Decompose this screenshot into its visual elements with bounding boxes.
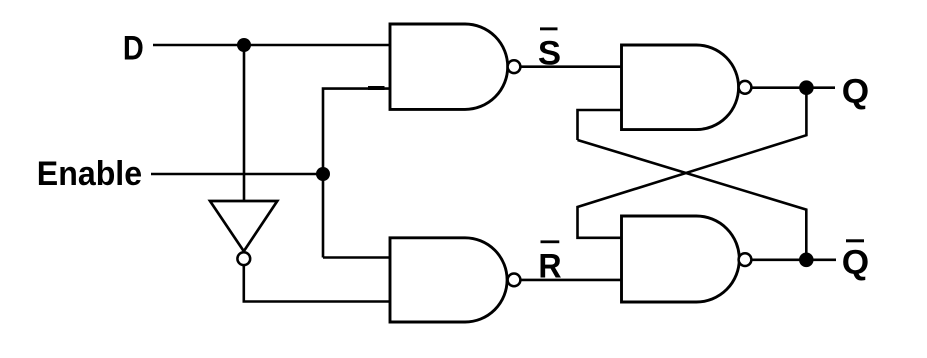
- NAND gate U1 output bubble: [508, 60, 521, 73]
- svg-text:S: S: [538, 34, 561, 72]
- inverter U5 triangle: [210, 201, 277, 251]
- wire D input: [153, 44, 390, 47]
- junction dot on D line: [237, 38, 251, 52]
- svg-text:R: R: [538, 248, 561, 286]
- NAND gate U4 output bubble: [739, 253, 752, 266]
- wire D branch down to inverter: [243, 45, 246, 201]
- NAND gate U3 output bubble: [739, 81, 752, 94]
- junction dot Q-bar: [799, 252, 814, 267]
- junction dot on Enable line: [316, 167, 330, 181]
- wire S-bar from U1 to U3: [520, 65, 621, 68]
- svg-text:D: D: [123, 29, 144, 67]
- svg-text:Enable: Enable: [37, 155, 142, 193]
- NAND gate U1 body: [390, 24, 508, 109]
- NAND gate U2 body: [390, 238, 507, 322]
- junction dot Q: [799, 80, 814, 95]
- wire R-bar from U2 to U4: [520, 279, 621, 282]
- wire Enable branch to gate U2 input: [323, 256, 390, 259]
- wire cross-coupling from U3 input to Q-bar node: [578, 140, 807, 260]
- inverter U5 output bubble: [237, 252, 250, 265]
- wire U3 output to Q: [751, 86, 835, 89]
- wire U4 output to Q-bar: [751, 258, 836, 261]
- NAND gate U3 body: [622, 45, 739, 130]
- svg-text:Q: Q: [842, 73, 869, 111]
- wire inverter output to gate U2 input: [244, 265, 390, 301]
- wire cross-coupling from Q node to U4 input: [578, 88, 807, 238]
- wire Enable branch up to gate U1 input: [323, 89, 390, 258]
- NAND gate U4 body: [622, 216, 740, 302]
- NAND gate U2 output bubble: [508, 274, 521, 287]
- wire U3 lower input: [578, 110, 622, 140]
- svg-text:Q: Q: [842, 244, 869, 282]
- wire Enable input: [151, 173, 323, 176]
- wire artifact dash on U1 lower input: [368, 86, 385, 90]
